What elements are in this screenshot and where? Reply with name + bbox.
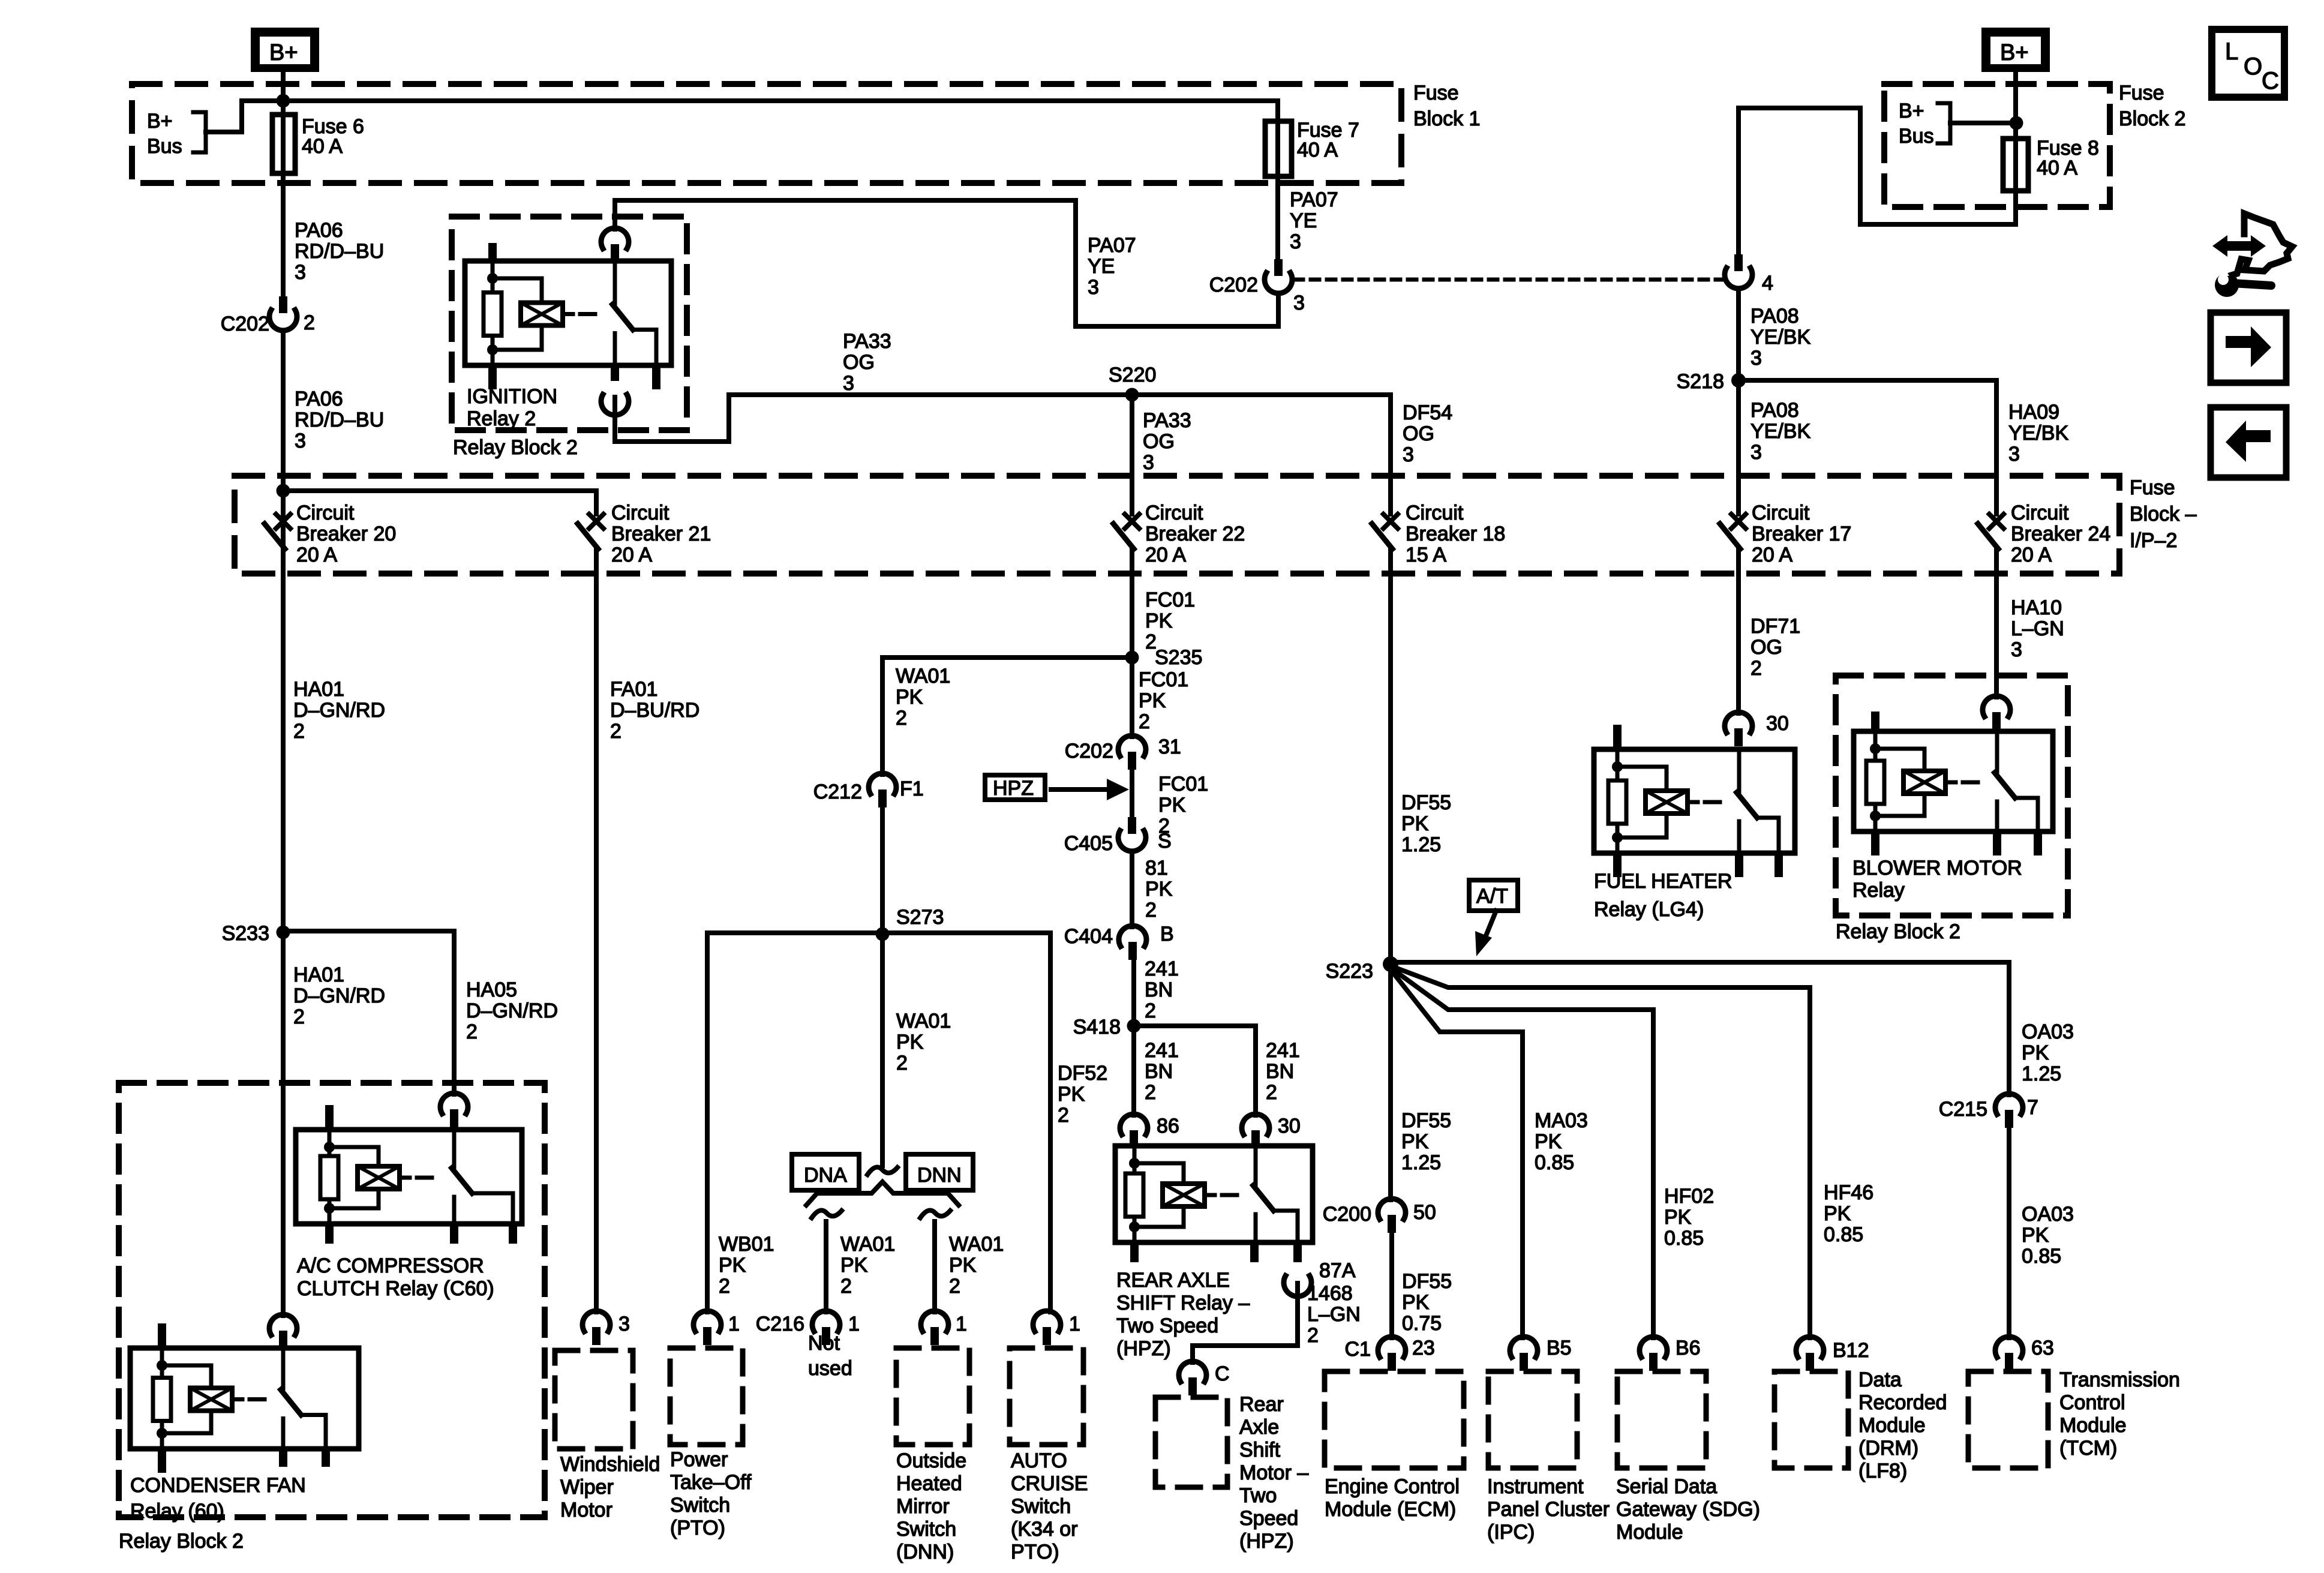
junction S223 xyxy=(1383,956,1398,972)
svg-text:OG: OG xyxy=(843,351,875,374)
relay U-ignition (IGNITION Relay 2) box and internals xyxy=(465,261,671,365)
svg-text:1: 1 xyxy=(1069,1313,1080,1335)
svg-text:40 A: 40 A xyxy=(302,135,343,158)
svg-text:20 A: 20 A xyxy=(1145,544,1186,566)
svg-text:Fuse: Fuse xyxy=(1413,82,1459,104)
svg-text:PK: PK xyxy=(1402,1291,1430,1314)
svg-text:YE: YE xyxy=(1290,209,1317,232)
svg-text:C202: C202 xyxy=(221,313,269,335)
svg-text:Panel Cluster: Panel Cluster xyxy=(1487,1498,1610,1521)
svg-text:Heated: Heated xyxy=(896,1472,962,1495)
svg-text:DNA: DNA xyxy=(804,1164,847,1187)
svg-text:PK: PK xyxy=(2022,1041,2049,1064)
service icon (arrows and wrench) xyxy=(2227,214,2292,277)
svg-text:2: 2 xyxy=(293,1005,305,1028)
svg-text:Breaker 24: Breaker 24 xyxy=(2011,523,2110,545)
svg-text:BLOWER MOTOR: BLOWER MOTOR xyxy=(1852,857,2022,879)
IPC dashed box xyxy=(1488,1371,1577,1468)
svg-text:3: 3 xyxy=(295,261,306,284)
svg-text:241: 241 xyxy=(1145,957,1179,980)
svg-text:1.25: 1.25 xyxy=(2022,1062,2061,1085)
svg-text:Motor: Motor xyxy=(560,1499,612,1521)
svg-text:(DNN): (DNN) xyxy=(896,1541,954,1563)
svg-text:Circuit: Circuit xyxy=(611,502,669,524)
relay U-fuelheater (FUEL HEATER Relay LG4) xyxy=(1594,749,1795,853)
wire 241 BN 2 from C404 to S418 xyxy=(1131,960,1136,1026)
svg-text:PK: PK xyxy=(1058,1083,1085,1106)
power terminal B+ (right) xyxy=(1981,28,2050,72)
svg-text:Circuit: Circuit xyxy=(2011,502,2069,524)
svg-text:3: 3 xyxy=(1750,347,1762,370)
svg-text:HPZ: HPZ xyxy=(993,777,1034,800)
connector 1 (auto cruise switch) xyxy=(1033,1311,1061,1331)
svg-text:PA08: PA08 xyxy=(1750,305,1799,328)
svg-text:1: 1 xyxy=(848,1313,860,1335)
svg-text:C215: C215 xyxy=(1939,1098,1987,1121)
svg-text:Circuit: Circuit xyxy=(1752,502,1810,524)
svg-text:PK: PK xyxy=(2022,1224,2049,1247)
svg-text:Breaker 17: Breaker 17 xyxy=(1752,523,1851,545)
Relay Block 2 dashed box (bottom left) xyxy=(119,1083,545,1517)
svg-text:2: 2 xyxy=(719,1275,730,1298)
svg-text:30: 30 xyxy=(1278,1115,1301,1137)
connector 30 (rear axle shift relay) xyxy=(1242,1114,1269,1134)
Rear Axle Shift Motor dashed box xyxy=(1155,1397,1227,1487)
svg-text:Two Speed: Two Speed xyxy=(1116,1314,1218,1337)
svg-text:3: 3 xyxy=(1403,443,1414,466)
svg-text:OG: OG xyxy=(1750,636,1782,659)
svg-text:PA07: PA07 xyxy=(1290,188,1338,211)
svg-text:2: 2 xyxy=(840,1275,852,1298)
svg-text:3: 3 xyxy=(1143,451,1154,474)
svg-text:PA33: PA33 xyxy=(1143,409,1191,432)
svg-text:Transmission: Transmission xyxy=(2059,1368,2180,1391)
svg-text:2: 2 xyxy=(1058,1104,1069,1127)
wire HF46 from S223 to DRM (fan line 2) xyxy=(1391,966,1810,1338)
svg-text:S218: S218 xyxy=(1677,370,1724,393)
svg-text:2: 2 xyxy=(1139,710,1150,733)
BLOWER MOTOR Relay dashed box (Relay Block 2) xyxy=(1836,676,2068,915)
svg-text:Windshield: Windshield xyxy=(560,1453,660,1476)
wire B+ Bus right to fuse 8 top xyxy=(1950,121,2016,125)
svg-text:B5: B5 xyxy=(1547,1337,1572,1359)
svg-text:S223: S223 xyxy=(1326,960,1373,983)
svg-text:2: 2 xyxy=(1145,999,1156,1022)
svg-text:2: 2 xyxy=(610,720,621,743)
bus from CB20 node to CB21 xyxy=(283,488,596,493)
svg-text:2: 2 xyxy=(1145,899,1157,921)
svg-text:B+: B+ xyxy=(2000,40,2029,65)
Windshield Wiper Motor dashed box xyxy=(555,1350,633,1449)
circuit breaker CB18 xyxy=(1383,514,1398,529)
svg-text:PK: PK xyxy=(896,1031,924,1053)
svg-text:IGNITION: IGNITION xyxy=(467,385,557,408)
svg-text:PK: PK xyxy=(1664,1206,1692,1229)
svg-text:2: 2 xyxy=(304,311,315,334)
svg-text:0.85: 0.85 xyxy=(1664,1227,1704,1250)
relay U-condenser (CONDENSER FAN Relay 60) xyxy=(130,1348,359,1449)
svg-text:3: 3 xyxy=(843,372,854,395)
ignition relay second contact bottom pin xyxy=(652,365,660,389)
svg-text:PK: PK xyxy=(1824,1202,1851,1225)
svg-text:Module: Module xyxy=(1616,1521,1683,1544)
svg-text:HA10: HA10 xyxy=(2011,596,2062,619)
svg-text:B: B xyxy=(1160,923,1174,945)
connector B6 (SDG) xyxy=(1640,1337,1667,1357)
junction at CB20 xyxy=(277,484,290,498)
wire HA01 from S233 to condenser fan relay xyxy=(281,932,286,1316)
svg-text:(K34 or: (K34 or xyxy=(1011,1518,1078,1541)
svg-text:Breaker 18: Breaker 18 xyxy=(1406,523,1505,545)
wire WA01 to outside heated mirror switch xyxy=(932,1221,937,1312)
rear axle relay bottom pins xyxy=(1130,1242,1139,1262)
svg-text:CONDENSER FAN: CONDENSER FAN xyxy=(130,1474,306,1497)
svg-text:B+: B+ xyxy=(269,40,298,65)
circuit breaker CB21 xyxy=(594,491,599,514)
relay U-blower (BLOWER MOTOR Relay) xyxy=(1854,731,2053,831)
svg-text:2: 2 xyxy=(1266,1081,1277,1104)
svg-text:15 A: 15 A xyxy=(1406,544,1446,566)
connector C202 pin 3 xyxy=(1274,259,1283,276)
ignition relay coil bottom pin xyxy=(488,365,497,389)
svg-text:PK: PK xyxy=(949,1254,977,1277)
connector 30 (fuel heater relay) xyxy=(1725,712,1752,733)
svg-text:Control: Control xyxy=(2059,1391,2125,1414)
svg-text:OA03: OA03 xyxy=(2022,1203,2074,1226)
wire DF52 from S273 to AUTO CRUISE switch xyxy=(1048,933,1053,1312)
svg-text:Take–Off: Take–Off xyxy=(670,1471,752,1494)
relay U-ac (A/C COMPRESSOR CLUTCH Relay C60) xyxy=(296,1130,522,1224)
connector into condenser fan relay xyxy=(269,1314,297,1335)
wire PA08 from fuse 8 to connector 4 xyxy=(1739,108,2016,254)
svg-text:3: 3 xyxy=(1293,292,1305,314)
svg-text:Relay Block 2: Relay Block 2 xyxy=(119,1530,244,1553)
wire WA01 from S273 down to break xyxy=(880,934,885,1166)
svg-text:Not: Not xyxy=(808,1332,840,1355)
connector C202 pin 31 xyxy=(1118,736,1146,756)
svg-text:PK: PK xyxy=(896,686,923,709)
svg-text:REAR AXLE: REAR AXLE xyxy=(1116,1269,1230,1292)
svg-text:Circuit: Circuit xyxy=(296,502,355,524)
connector 87A xyxy=(1293,1242,1302,1262)
junction S218 xyxy=(1731,373,1746,388)
connector C216 pin 1 (not used) xyxy=(812,1311,840,1331)
wire B+ (right) down xyxy=(2013,72,2018,139)
svg-text:Circuit: Circuit xyxy=(1406,502,1464,524)
svg-text:Rear: Rear xyxy=(1239,1393,1284,1416)
svg-text:Bus: Bus xyxy=(1899,125,1934,148)
svg-text:FUEL HEATER: FUEL HEATER xyxy=(1594,870,1732,893)
wire PA33 from ignition relay to S220 bus xyxy=(615,395,729,442)
svg-text:C404: C404 xyxy=(1064,925,1113,948)
svg-text:used: used xyxy=(808,1357,852,1380)
svg-text:Breaker 21: Breaker 21 xyxy=(611,523,711,545)
wire PA08 from S218 down to CB17 xyxy=(1736,380,1741,514)
svg-text:S235: S235 xyxy=(1155,646,1202,669)
svg-text:D–BU/RD: D–BU/RD xyxy=(610,699,699,722)
wire OA03 from C215 to TCM xyxy=(2007,1128,2011,1338)
svg-text:PK: PK xyxy=(719,1254,746,1277)
connector C404 pin B xyxy=(1119,926,1146,946)
blower relay coil top pin xyxy=(1871,712,1879,731)
tag box DNN xyxy=(906,1154,973,1190)
wire break squiggle (center) xyxy=(867,1167,897,1175)
svg-text:YE: YE xyxy=(1088,255,1115,278)
svg-text:20 A: 20 A xyxy=(296,544,337,566)
svg-text:Switch: Switch xyxy=(670,1494,730,1517)
svg-text:Block 2: Block 2 xyxy=(2119,107,2186,130)
svg-text:OG: OG xyxy=(1403,422,1434,445)
IGNITION Relay 2 dashed box (Relay Block 2) xyxy=(452,217,687,430)
wire 1468 L-GN 2 from 87A to motor connector C xyxy=(1193,1283,1298,1362)
junction S235 xyxy=(1125,651,1139,665)
svg-text:BN: BN xyxy=(1266,1060,1294,1083)
svg-text:DF55: DF55 xyxy=(1401,791,1451,814)
connector C1 pin 23 (ECM) xyxy=(1378,1337,1406,1357)
svg-text:B+: B+ xyxy=(1899,100,1924,122)
wire PA33 from S220 down to CB22 xyxy=(1130,395,1134,514)
Fuse Block 2 dashed box xyxy=(1884,84,2110,207)
svg-text:87A: 87A xyxy=(1319,1259,1356,1282)
svg-text:S: S xyxy=(1158,830,1172,852)
legend box LOC xyxy=(2212,29,2284,97)
DRM dashed box xyxy=(1774,1371,1848,1468)
wire HA05 branch from S233 xyxy=(283,931,454,1094)
svg-text:Power: Power xyxy=(670,1448,728,1471)
wire FC01 from CB22 to S235 xyxy=(1130,549,1134,658)
wire 81 PK 2 from C405 to C404 xyxy=(1130,852,1134,927)
svg-text:B+: B+ xyxy=(147,110,173,133)
junction S220 xyxy=(1125,388,1139,402)
svg-text:O: O xyxy=(2244,53,2262,80)
svg-text:BN: BN xyxy=(1145,978,1173,1001)
svg-text:PK: PK xyxy=(1401,1130,1429,1153)
svg-text:RD/D–BU: RD/D–BU xyxy=(295,409,384,431)
svg-text:C212: C212 xyxy=(813,781,862,803)
wire FC01 from C202-31 to C405 xyxy=(1130,770,1134,817)
ignition relay switch bottom connector xyxy=(611,365,619,381)
connector B12 (DRM) xyxy=(1796,1337,1824,1357)
svg-text:PK: PK xyxy=(1401,812,1429,835)
svg-text:PA08: PA08 xyxy=(1750,399,1799,422)
svg-text:0.75: 0.75 xyxy=(1402,1312,1442,1335)
svg-text:0.85: 0.85 xyxy=(2022,1245,2061,1268)
wire DF55 from S223 down to C200 xyxy=(1388,964,1393,1200)
svg-text:YE/BK: YE/BK xyxy=(1750,420,1810,443)
condenser fan relay coil top pin xyxy=(158,1323,166,1348)
svg-text:FC01: FC01 xyxy=(1139,668,1188,691)
power terminal B+ (left) xyxy=(251,28,319,72)
AUTO CRUISE Switch dashed box xyxy=(1010,1348,1083,1445)
svg-text:D–GN/RD: D–GN/RD xyxy=(293,984,385,1007)
svg-text:C202: C202 xyxy=(1065,740,1113,763)
svg-text:2: 2 xyxy=(293,720,305,743)
connector C405 pin S xyxy=(1128,817,1136,834)
svg-text:PTO): PTO) xyxy=(1011,1541,1059,1563)
svg-text:1.25: 1.25 xyxy=(1401,833,1441,856)
svg-text:Two: Two xyxy=(1239,1484,1277,1507)
svg-text:Instrument: Instrument xyxy=(1487,1475,1584,1498)
connector C200 pin 50 xyxy=(1378,1199,1406,1219)
svg-text:23: 23 xyxy=(1412,1337,1435,1359)
wire break squiggle (left option) xyxy=(812,1211,842,1218)
svg-text:C: C xyxy=(2262,68,2279,94)
connector into ignition relay (top) xyxy=(601,228,629,248)
svg-text:3: 3 xyxy=(1290,230,1301,253)
svg-text:2: 2 xyxy=(949,1275,960,1298)
svg-text:D–GN/RD: D–GN/RD xyxy=(293,699,385,722)
svg-text:HA01: HA01 xyxy=(293,963,344,986)
circuit breaker CB24 xyxy=(1989,514,2004,529)
svg-text:Axle: Axle xyxy=(1239,1416,1279,1439)
wire DF71 from CB17 to fuel heater relay xyxy=(1736,549,1741,713)
wire DF54 from S220 bus down to CB18 xyxy=(1388,395,1393,514)
svg-text:DNN: DNN xyxy=(917,1164,962,1187)
connector C (rear axle shift motor) xyxy=(1179,1361,1206,1382)
svg-text:Speed: Speed xyxy=(1239,1507,1298,1530)
svg-text:2: 2 xyxy=(466,1020,478,1043)
svg-text:Gateway (SDG): Gateway (SDG) xyxy=(1616,1498,1760,1521)
svg-text:MA03: MA03 xyxy=(1535,1109,1588,1132)
bus through S273 xyxy=(707,930,1050,935)
wire DF55 from CB18 to S223 xyxy=(1388,549,1393,964)
fuse F6 "Fuse 6 40 A" xyxy=(281,101,286,296)
circuit breaker CB20 xyxy=(276,514,290,529)
svg-text:OG: OG xyxy=(1143,430,1175,453)
svg-text:FC01: FC01 xyxy=(1158,773,1208,795)
wire MA03 from S223 to IPC (fan line 4) xyxy=(1391,969,1523,1338)
svg-text:I/P–2: I/P–2 xyxy=(2130,529,2177,552)
svg-text:0.85: 0.85 xyxy=(1824,1223,1863,1246)
svg-text:Block 1: Block 1 xyxy=(1413,107,1481,130)
A/C relay coil top pin xyxy=(325,1105,334,1130)
svg-text:C200: C200 xyxy=(1323,1203,1371,1226)
svg-text:Wiper: Wiper xyxy=(560,1476,614,1499)
wire WA01 from C212 to S273 xyxy=(880,807,885,934)
svg-text:C216: C216 xyxy=(756,1313,804,1335)
svg-text:Fuse: Fuse xyxy=(2130,476,2175,499)
svg-text:Switch: Switch xyxy=(1011,1495,1071,1518)
svg-text:A/C COMPRESSOR: A/C COMPRESSOR xyxy=(297,1254,484,1277)
svg-text:(LF8): (LF8) xyxy=(1858,1460,1907,1482)
svg-text:WA01: WA01 xyxy=(896,665,950,688)
svg-text:Breaker 22: Breaker 22 xyxy=(1145,523,1245,545)
svg-text:Recorded: Recorded xyxy=(1858,1391,1947,1414)
svg-text:(PTO): (PTO) xyxy=(670,1517,725,1539)
connector 1 (PTO switch) xyxy=(693,1311,721,1331)
svg-text:(IPC): (IPC) xyxy=(1487,1521,1535,1544)
svg-text:1: 1 xyxy=(728,1313,740,1335)
connector into A/C compressor clutch relay xyxy=(440,1093,468,1113)
svg-text:4: 4 xyxy=(1762,272,1773,295)
fuse F8 "Fuse 8 40 A" xyxy=(2013,139,2018,191)
connector 1 (outside heated mirror switch) xyxy=(921,1311,948,1331)
svg-text:0.85: 0.85 xyxy=(1535,1151,1574,1174)
svg-text:B12: B12 xyxy=(1833,1339,1869,1362)
alternatives brace xyxy=(806,1182,959,1205)
svg-text:63: 63 xyxy=(2031,1337,2054,1359)
svg-text:DF54: DF54 xyxy=(1403,401,1452,424)
connector C202 pin 2 xyxy=(279,296,287,313)
Power Take-Off Switch dashed box xyxy=(670,1348,743,1445)
connector C212 pin F1 xyxy=(869,773,896,794)
connector 3 (windshield wiper motor) xyxy=(582,1311,610,1331)
svg-text:Relay (LG4): Relay (LG4) xyxy=(1594,898,1704,921)
svg-text:C405: C405 xyxy=(1064,832,1113,855)
Outside Heated Mirror Switch dashed box xyxy=(896,1348,969,1445)
bus PA33/S220 horizontal xyxy=(729,392,1391,397)
svg-text:C1: C1 xyxy=(1345,1338,1371,1361)
svg-text:Module: Module xyxy=(2059,1414,2127,1437)
svg-text:PA06: PA06 xyxy=(295,219,343,242)
svg-text:WA01: WA01 xyxy=(840,1233,895,1256)
svg-text:Switch: Switch xyxy=(896,1518,956,1541)
svg-text:Relay: Relay xyxy=(1852,879,1905,902)
svg-text:HA05: HA05 xyxy=(466,978,517,1001)
junction at fuse 6 top xyxy=(277,94,290,108)
svg-text:HA09: HA09 xyxy=(2008,401,2059,424)
nav icon arrow left xyxy=(2211,407,2286,478)
svg-text:YE/BK: YE/BK xyxy=(2008,422,2068,445)
connector C215 pin 7 xyxy=(1995,1094,2023,1114)
svg-text:L–GN: L–GN xyxy=(2011,617,2064,640)
svg-text:DF55: DF55 xyxy=(1401,1109,1451,1132)
connector into blower motor relay xyxy=(1983,696,2010,716)
svg-text:FA01: FA01 xyxy=(610,678,657,701)
svg-text:3: 3 xyxy=(295,430,306,452)
svg-text:D–GN/RD: D–GN/RD xyxy=(466,999,558,1022)
tag box A/T with arrow xyxy=(1469,880,1518,911)
wire FA01 from CB21 to windshield wiper motor xyxy=(594,549,599,1312)
svg-text:(HPZ): (HPZ) xyxy=(1239,1530,1294,1553)
wire B+ Bus to bus junction xyxy=(206,101,242,132)
svg-text:Serial Data: Serial Data xyxy=(1616,1475,1717,1498)
svg-text:Relay 2: Relay 2 xyxy=(467,407,536,430)
A/C relay bottom pins xyxy=(325,1224,334,1244)
wire PA07 into ignition relay top xyxy=(612,200,617,229)
svg-text:Data: Data xyxy=(1858,1368,1902,1391)
svg-text:PA06: PA06 xyxy=(295,388,343,410)
svg-text:Module (ECM): Module (ECM) xyxy=(1325,1498,1456,1521)
svg-text:Block –: Block – xyxy=(2130,503,2197,526)
wire 241 BN 2 right branch to connector 30 xyxy=(1134,1026,1256,1115)
svg-text:CRUISE: CRUISE xyxy=(1011,1472,1088,1495)
fuel heater relay coil top pin xyxy=(1613,725,1622,749)
svg-text:PK: PK xyxy=(1139,689,1166,712)
svg-text:CLUTCH Relay (C60): CLUTCH Relay (C60) xyxy=(297,1277,494,1300)
svg-text:Module: Module xyxy=(1858,1414,1926,1437)
svg-text:7: 7 xyxy=(2027,1096,2038,1119)
svg-text:Relay Block 2: Relay Block 2 xyxy=(453,436,578,459)
svg-text:DF55: DF55 xyxy=(1402,1270,1452,1293)
svg-text:(HPZ): (HPZ) xyxy=(1116,1337,1171,1360)
svg-text:Motor –: Motor – xyxy=(1239,1461,1308,1484)
Fuse Block - I/P-2 dashed box (circuit breaker row) xyxy=(235,476,2119,574)
svg-text:PK: PK xyxy=(1535,1130,1562,1153)
wire B+ terminal down into fuse block xyxy=(281,72,286,101)
wire DF55 from C200 to ECM xyxy=(1389,1233,1394,1338)
svg-text:3: 3 xyxy=(618,1313,630,1335)
junction S418 xyxy=(1127,1019,1141,1033)
svg-text:50: 50 xyxy=(1413,1201,1436,1224)
connector B5 (IPC) xyxy=(1510,1337,1538,1357)
svg-text:Mirror: Mirror xyxy=(896,1495,950,1518)
wire PA08 from connector 4 to S218 xyxy=(1736,289,1741,380)
svg-text:Engine Control: Engine Control xyxy=(1325,1475,1460,1498)
wire WB01 from S273 to PTO switch xyxy=(705,933,710,1312)
junction S273 xyxy=(876,927,890,941)
svg-text:241: 241 xyxy=(1266,1039,1300,1062)
